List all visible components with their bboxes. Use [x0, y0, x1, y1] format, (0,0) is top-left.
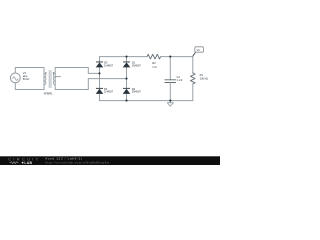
svg-text:R1: R1: [200, 73, 204, 77]
svg-text:1N4007: 1N4007: [104, 90, 114, 94]
logo resistor zigzag: [10, 162, 19, 164]
wire D3 anode to node: [99, 67, 101, 73]
svg-text:1N4007: 1N4007: [132, 63, 142, 67]
svg-text:100 kΩ: 100 kΩ: [200, 77, 208, 81]
junction node D2 bottom rail: [125, 100, 127, 102]
logo square: [22, 162, 24, 164]
wire D4 anode to bottom rail: [99, 94, 101, 101]
wire bottom rail: [100, 100, 193, 102]
svg-text:R2: R2: [152, 61, 156, 65]
wire D1 anode to node: [126, 67, 128, 78]
svg-text:1N4007: 1N4007: [104, 63, 114, 67]
node flag Vo: [193, 47, 204, 56]
svg-text:LAB: LAB: [24, 161, 32, 165]
transformer XFMR1: [44, 68, 55, 90]
label D1: [132, 61, 142, 68]
label R2: [152, 61, 156, 69]
junction node D3-D4: [98, 72, 100, 74]
wire node to D4 cathode: [99, 73, 101, 88]
voltage source V1: [10, 73, 20, 83]
wire secondary bottom to D1/D2 node: [55, 79, 126, 90]
transformer phase dot primary: [45, 72, 46, 73]
resistor R1: [191, 57, 196, 101]
label D3: [104, 61, 114, 68]
svg-text:http://circuitlab.com/c/6fq8s8: http://circuitlab.com/c/6fq8s8kzq5w: [45, 161, 109, 165]
transformer phase dot secondary: [53, 72, 54, 73]
junction node C1 top rail: [169, 56, 171, 58]
wire secondary top to D3/D4 node: [55, 68, 99, 74]
wire D3 cathode stub: [99, 57, 101, 62]
svg-text:60 Hz: 60 Hz: [23, 77, 30, 81]
diode D2: [123, 88, 131, 94]
capacitor C1: [165, 57, 176, 101]
svg-text:1N4007: 1N4007: [132, 90, 142, 94]
junction node D1-D2: [125, 78, 127, 80]
wire node to D2 cathode: [126, 79, 128, 89]
ground: [167, 101, 173, 107]
svg-text:Vo: Vo: [197, 48, 201, 52]
resistor R2: [147, 54, 161, 59]
svg-text:1 Ω: 1 Ω: [152, 65, 156, 69]
wire top rail left: [100, 56, 148, 58]
label C1: [177, 75, 183, 82]
svg-text:1 mF: 1 mF: [177, 78, 183, 82]
svg-text:XFMR1: XFMR1: [44, 92, 53, 96]
transformer center tap stub: [55, 76, 60, 78]
wire source top to transformer primary: [15, 68, 44, 74]
wire D2 anode to bottom rail: [126, 94, 128, 101]
label D2: [132, 87, 142, 94]
junction node D1 top rail: [125, 56, 127, 58]
wire source bottom to transformer primary: [15, 83, 44, 90]
footer watermark bar: [0, 156, 220, 165]
label R1: [200, 73, 208, 81]
label D4: [104, 87, 114, 94]
diode D1: [123, 62, 131, 68]
wire top rail right: [161, 56, 193, 58]
diode D3: [96, 62, 104, 68]
label V1: [23, 71, 30, 81]
junction node ground bottom rail: [169, 100, 171, 102]
wire D1 cathode stub: [126, 57, 128, 62]
diode D4: [96, 88, 104, 94]
